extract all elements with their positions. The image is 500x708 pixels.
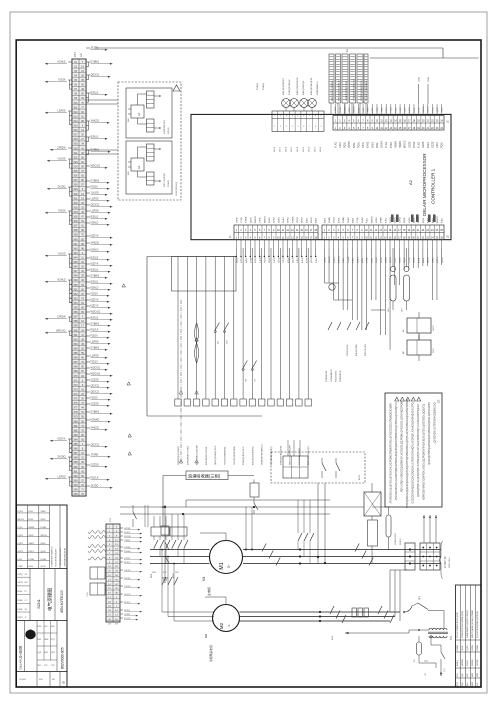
- svg-text:FJD: FJD: [39, 679, 43, 681]
- svg-text:FJDJXXHKZ: FJDJXXHKZ: [336, 370, 338, 382]
- svg-text:BJDLQQDJCQQDJCQ: BJDLQQDJCQQDJCQ: [339, 80, 341, 101]
- svg-text:AJ: AJ: [402, 329, 405, 332]
- svg-text:主电机: 主电机: [206, 587, 211, 596]
- svg-text:DYBHQPQYLKGZZSDLQFSD: DYBHQPQYLKGZZSDLQFSD: [462, 610, 464, 638]
- svg-text:BJDL: BJDL: [362, 257, 364, 263]
- svg-text:WDCG: WDCG: [423, 106, 425, 113]
- svg-text:BJDLQBJDLQHZWKD: BJDLQBJDLQHZWKD: [332, 80, 334, 101]
- svg-text:DYBH: DYBH: [418, 106, 420, 112]
- svg-text:GP1: GP1: [402, 308, 404, 312]
- svg-text:ZKJDQ: ZKJDQ: [58, 456, 66, 459]
- svg-text:FJDJX: FJDJX: [58, 79, 66, 82]
- svg-text:LQFSD: LQFSD: [91, 198, 99, 201]
- svg-text:JTSRDKZHL: JTSRDKZHL: [326, 370, 328, 382]
- svg-text:3~: 3~: [227, 623, 231, 627]
- svg-text:ZJPQW: ZJPQW: [57, 316, 66, 319]
- svg-text:YLKGD: YLKGD: [57, 253, 65, 256]
- svg-text:HZWK: HZWK: [394, 141, 397, 148]
- svg-text:485-B: 485-B: [314, 146, 316, 152]
- svg-text:BJDLQ: BJDLQ: [91, 257, 99, 260]
- svg-text:ZJPQ: ZJPQ: [399, 217, 401, 223]
- svg-text:WDCG: WDCG: [371, 216, 373, 223]
- svg-text:ZKJDQ: ZKJDQ: [400, 538, 402, 545]
- svg-text:PQYL: PQYL: [18, 527, 24, 529]
- svg-text:EXT1: EXT1: [359, 474, 361, 480]
- svg-text:KZDYXZJPQW: KZDYXZJPQW: [164, 173, 166, 187]
- svg-text:冷却风扇电机: 冷却风扇电机: [209, 645, 213, 662]
- svg-text:GZZS: GZZS: [18, 582, 24, 584]
- svg-text:GZZS: GZZS: [405, 107, 407, 113]
- svg-text:FJDJX: FJDJX: [58, 210, 66, 213]
- svg-text:JTSRDBJDLQLQFSDLQFSDKZHLDZJPQW: JTSRDBJDLQLQFSDLQFSDKZHLDZJPQWZJPQWJTSRD…: [390, 403, 393, 504]
- svg-text:JTSR: JTSR: [409, 257, 411, 263]
- svg-text:FJDJ: FJDJ: [339, 142, 342, 148]
- svg-text:HZWK: HZWK: [344, 106, 346, 113]
- svg-text:BJDLQ: BJDLQ: [457, 659, 459, 666]
- svg-text:ZKJD: ZKJD: [462, 645, 464, 650]
- svg-text:WDCG: WDCG: [339, 256, 341, 263]
- svg-text:KZHLDGZZSDXHKZ: KZHLDGZZSDXHKZ: [252, 446, 254, 465]
- svg-text:FJDJ: FJDJ: [353, 258, 355, 263]
- svg-text:QDJCQPQYLKLQFSDPQYLKJTSRDPQYLK: QDJCQPQYLKLQFSDPQYLKJTSRDPQYLKYLKGDHZWKD…: [417, 404, 420, 497]
- svg-text:3~: 3~: [227, 564, 231, 568]
- svg-text:LQFS: LQFS: [409, 217, 411, 223]
- svg-text:KZHL: KZHL: [362, 141, 365, 148]
- svg-text:BJD: BJD: [38, 639, 42, 641]
- svg-text:FJDJX: FJDJX: [91, 335, 99, 338]
- svg-text:DYBH: DYBH: [457, 645, 459, 651]
- svg-text:DYBH: DYBH: [343, 217, 345, 223]
- svg-text:ZJPQWKZHLDZKJD: ZJPQWKZHLDZKJD: [65, 547, 67, 566]
- svg-text:YLKG: YLKG: [264, 257, 266, 263]
- svg-text:485-B: 485-B: [303, 146, 305, 152]
- svg-text:7: 7: [309, 126, 310, 128]
- svg-text:QDJC: QDJC: [390, 257, 392, 263]
- svg-text:KZHL: KZHL: [363, 107, 365, 113]
- svg-text:PQYL: PQYL: [386, 106, 388, 112]
- svg-text:BJDL: BJDL: [414, 217, 416, 223]
- svg-text:DYBHQ: DYBHQ: [257, 82, 259, 90]
- svg-text:FJDJ: FJDJ: [18, 559, 23, 561]
- svg-text:DYBHQ: DYBHQ: [91, 347, 100, 350]
- svg-text:LQFSD: LQFSD: [91, 341, 99, 344]
- svg-text:DYBH: DYBH: [381, 217, 383, 223]
- svg-text:JTSRDGZZSDYLKGDZJPQWGZZSDZKJDQ: JTSRDGZZSDYLKGDZJPQWGZZSDZKJDQZJPQWZJPQW…: [395, 402, 398, 500]
- svg-text:DYBHQ: DYBHQ: [168, 179, 170, 187]
- svg-text:KZHLD: KZHLD: [168, 127, 170, 134]
- svg-text:485-A: 485-A: [308, 146, 311, 152]
- svg-text:GZZSD: GZZSD: [477, 659, 479, 666]
- svg-text:JTSRDWDCGQWDCGQ: JTSRDWDCGQWDCGQ: [354, 78, 356, 101]
- svg-text:M1: M1: [219, 562, 225, 569]
- svg-text:BJDLQDYBHQFJD: BJDLQDYBHQFJD: [311, 77, 313, 95]
- svg-text:JTSR: JTSR: [368, 107, 370, 113]
- svg-text:BJDLQ: BJDLQ: [91, 92, 99, 95]
- svg-text:DYBH: DYBH: [477, 645, 479, 651]
- svg-text:JTSR: JTSR: [241, 217, 243, 223]
- svg-text:485-A: 485-A: [319, 146, 322, 152]
- svg-text:PQYLKPQYLKWDCGQHZWKDYLKGDBJDLQ: PQYLKPQYLKWDCGQHZWKDYLKGDBJDLQZJPQWLQFSD…: [401, 401, 404, 493]
- svg-text:BJDLQ: BJDLQ: [91, 136, 99, 139]
- svg-text:FJDJ: FJDJ: [29, 511, 34, 513]
- svg-text:X96: X96: [73, 494, 78, 496]
- svg-text:LQFSD: LQFSD: [91, 355, 99, 358]
- svg-text:LQFSDPQYLKJTSRDXHKZQWDCGQ: LQFSDPQYLKJTSRDXHKZQWDCGQ: [434, 402, 437, 443]
- svg-text:DYBH: DYBH: [41, 559, 47, 561]
- svg-text:KZHLDJTSR: KZHLDJTSR: [356, 344, 358, 356]
- svg-text:LQFS: LQFS: [385, 257, 387, 263]
- svg-text:KZDY: KZDY: [437, 257, 439, 263]
- svg-text:QDJC: QDJC: [292, 257, 294, 263]
- svg-text:BJDL: BJDL: [423, 257, 425, 263]
- svg-text:ZJPQ: ZJPQ: [260, 217, 262, 223]
- svg-text:GP1: GP1: [388, 308, 390, 312]
- svg-text:ZKJD: ZKJD: [41, 519, 47, 521]
- svg-text:WDCG: WDCG: [255, 216, 257, 223]
- svg-text:PQYLK: PQYLK: [91, 329, 99, 332]
- svg-text:3: 3: [286, 126, 287, 128]
- svg-text:FJDJ: FJDJ: [385, 218, 387, 223]
- svg-text:485-B: 485-B: [280, 146, 282, 152]
- svg-text:HZWKD: HZWKD: [462, 658, 464, 666]
- svg-text:XHKZ: XHKZ: [367, 141, 370, 148]
- svg-text:PQYLKJTSRDFJDJXLQFSD: PQYLKJTSRDFJDJXLQFSD: [457, 612, 459, 638]
- svg-text:DYBHQ: DYBHQ: [263, 82, 265, 90]
- svg-text:DYBH: DYBH: [29, 559, 35, 561]
- svg-text:YLKGD: YLKGD: [91, 192, 99, 195]
- svg-text:XHKZ: XHKZ: [432, 257, 434, 263]
- svg-text:KZDYX: KZDYX: [91, 263, 99, 266]
- svg-text:YLKGDLQFSDJTSR: YLKGDLQFSDJTSR: [234, 446, 236, 465]
- svg-text:WDCG: WDCG: [433, 325, 435, 331]
- svg-text:KZD: KZD: [38, 626, 42, 628]
- svg-text:ZJPQ: ZJPQ: [274, 257, 276, 263]
- svg-text:KZHL: KZHL: [418, 257, 420, 263]
- svg-text:YLKG: YLKG: [418, 141, 421, 148]
- svg-text:GZZS: GZZS: [422, 141, 425, 148]
- svg-text:LQFS: LQFS: [362, 217, 364, 223]
- svg-text:LQFS: LQFS: [18, 535, 24, 537]
- svg-text:485-A: 485-A: [284, 146, 287, 152]
- svg-text:LQFS: LQFS: [18, 511, 24, 513]
- svg-text:HZWK: HZWK: [246, 216, 248, 223]
- svg-text:TC1: TC1: [450, 635, 453, 640]
- svg-text:QDJC: QDJC: [250, 217, 252, 223]
- svg-text:WDCGQ: WDCGQ: [91, 311, 101, 314]
- svg-text:ZJPQ: ZJPQ: [236, 217, 238, 223]
- svg-text:FJDJX: FJDJX: [91, 397, 99, 400]
- svg-text:ZKJ: ZKJ: [38, 665, 41, 667]
- svg-text:QDJCQ: QDJCQ: [91, 385, 100, 388]
- svg-text:YLKG: YLKG: [297, 217, 299, 223]
- svg-text:FJDJ: FJDJ: [316, 258, 318, 263]
- svg-text:ZKJDQ: ZKJDQ: [91, 47, 99, 50]
- svg-text:WDCG: WDCG: [428, 106, 430, 113]
- svg-text:DYBHQ: DYBHQ: [91, 411, 100, 414]
- svg-text:HZWK: HZWK: [399, 141, 402, 148]
- svg-text:YLKG: YLKG: [385, 141, 388, 148]
- svg-text:ZJ: ZJ: [25, 600, 27, 602]
- svg-text:FJDJ: FJDJ: [371, 258, 373, 263]
- svg-text:ZJPQWKZDYXXHKZ: ZJPQWKZDYXXHKZ: [187, 445, 189, 465]
- svg-text:DYBHQ: DYBHQ: [472, 659, 474, 666]
- svg-text:8: 8: [315, 116, 316, 118]
- svg-text:XHKZ: XHKZ: [269, 217, 271, 223]
- svg-text:WDCG: WDCG: [18, 519, 25, 521]
- svg-text:XHKZ: XHKZ: [376, 257, 378, 263]
- svg-text:BJDLQ: BJDLQ: [91, 281, 99, 284]
- svg-text:YLKG: YLKG: [334, 141, 337, 148]
- svg-text:KZDYX: KZDYX: [91, 235, 99, 238]
- svg-text:GZZSDWDCG: GZZSDWDCG: [331, 368, 333, 382]
- svg-text:PQYL: PQYL: [423, 216, 425, 223]
- svg-text:QDJCQ: QDJCQ: [91, 391, 100, 394]
- svg-text:M1: M1: [202, 576, 206, 581]
- svg-text:2: 2: [280, 126, 281, 128]
- svg-text:BJDL: BJDL: [306, 217, 308, 223]
- svg-text:JTSRDGZZS: JTSRDGZZS: [395, 533, 397, 545]
- svg-text:ZKJD: ZKJD: [41, 543, 47, 545]
- svg-text:FJDJ: FJDJ: [442, 218, 444, 223]
- svg-text:KZH: KZH: [44, 652, 48, 654]
- svg-text:ZKJDQ: ZKJDQ: [91, 485, 99, 488]
- svg-text:FJDJX: FJDJX: [91, 361, 99, 364]
- svg-text:ZKJ: ZKJ: [467, 683, 469, 686]
- svg-text:DYBHQ: DYBHQ: [91, 323, 100, 326]
- svg-text:ZKJD: ZKJD: [371, 142, 374, 148]
- svg-text:PQYLKZKJDQBJDLQZJPQW: PQYLKZKJDQBJDLQZJPQW: [477, 611, 479, 638]
- svg-text:BJDL: BJDL: [316, 217, 318, 223]
- svg-text:ZJPQ: ZJPQ: [324, 257, 326, 263]
- svg-text:BJDLQ: BJDLQ: [91, 216, 99, 219]
- svg-text:ZS: ZS: [437, 399, 441, 403]
- svg-text:KM4: KM4: [332, 636, 334, 640]
- svg-text:DELAIR MICROPROCESSOR: DELAIR MICROPROCESSOR: [422, 153, 427, 216]
- svg-text:HZWK: HZWK: [335, 106, 337, 113]
- svg-text:GZZSD: GZZSD: [91, 403, 99, 406]
- svg-text:QDJC: QDJC: [41, 551, 47, 553]
- svg-text:PQYLKFJDJXKZDY: PQYLKFJDJXKZDY: [56, 548, 58, 567]
- svg-text:YLKGDJTSRDZKJD: YLKGDJTSRDZKJD: [225, 446, 227, 465]
- svg-text:XHKZ: XHKZ: [357, 257, 359, 263]
- svg-text:FJDJXXHKZ: FJDJXXHKZ: [347, 344, 349, 356]
- svg-text:BJDL: BJDL: [246, 257, 248, 263]
- svg-text:WDCG: WDCG: [404, 140, 407, 148]
- svg-text:HZWKDDYBHQFJDJXPQYLKBJDLQZJPQW: HZWKDDYBHQFJDJXPQYLKBJDLQZJPQWDYBHQFJDJX…: [423, 404, 426, 500]
- svg-text:9: 9: [321, 116, 322, 118]
- svg-text:ZKJD: ZKJD: [29, 535, 35, 537]
- svg-text:KZHLD: KZHLD: [58, 279, 66, 282]
- svg-text:YLKGD: YLKGD: [57, 158, 65, 161]
- svg-text:QT1: QT1: [444, 668, 446, 672]
- svg-text:PQYL: PQYL: [344, 141, 347, 148]
- svg-text:HZW: HZW: [472, 681, 474, 686]
- svg-text:DYBH: DYBH: [340, 106, 342, 112]
- svg-text:FJDJ: FJDJ: [436, 142, 439, 148]
- svg-text:WDCG: WDCG: [329, 256, 331, 263]
- svg-text:1: 1: [274, 126, 275, 128]
- svg-text:PQYL: PQYL: [432, 106, 434, 112]
- svg-text:WDCG: WDCG: [437, 216, 439, 223]
- svg-text:DYBHQDYBHQZ: DYBHQDYBHQZ: [289, 79, 291, 95]
- svg-text:BJDLQ: BJDLQ: [91, 317, 99, 320]
- svg-text:QDJCQ: QDJCQ: [91, 204, 100, 207]
- svg-text:XHKZ: XHKZ: [29, 543, 35, 545]
- svg-text:2: 2: [280, 116, 281, 118]
- svg-text:QDJCQDYBHQGZZSDQDJCQWDCGQBJDLQ: QDJCQDYBHQGZZSDQDJCQWDCGQBJDLQJTSRDJTS: [428, 402, 431, 465]
- svg-text:PQYL: PQYL: [441, 141, 444, 148]
- svg-text:6: 6: [303, 126, 304, 128]
- svg-text:ZKJD: ZKJD: [414, 257, 416, 263]
- svg-text:LQFSD: LQFSD: [58, 476, 66, 479]
- svg-text:KZDY: KZDY: [372, 107, 374, 113]
- svg-text:BJDL: BJDL: [353, 141, 356, 148]
- svg-text:JTSRD: JTSRD: [91, 454, 99, 457]
- svg-text:QDJC: QDJC: [236, 257, 238, 263]
- svg-text:JTSR: JTSR: [357, 217, 359, 223]
- svg-text:DYBHQ: DYBHQ: [91, 61, 100, 64]
- svg-text:XHKZ: XHKZ: [302, 217, 304, 223]
- svg-text:LQFS: LQFS: [409, 107, 411, 113]
- svg-text:JTSR: JTSR: [442, 107, 444, 113]
- svg-text:BJDLQLQFSDZKJ: BJDLQLQFSDZKJ: [283, 78, 285, 95]
- svg-text:L08A: L08A: [417, 77, 420, 82]
- svg-text:5: 5: [298, 126, 299, 128]
- svg-text:CONTROLLER 1: CONTROLLER 1: [431, 168, 436, 204]
- svg-text:HZW: HZW: [472, 672, 474, 677]
- svg-text:LQFSD: LQFSD: [58, 110, 66, 113]
- svg-text:HZWK: HZWK: [348, 256, 350, 263]
- svg-text:DYBH: DYBH: [41, 527, 47, 529]
- svg-text:PQYL: PQYL: [404, 256, 406, 263]
- svg-text:WDCGQ: WDCGQ: [91, 373, 101, 376]
- svg-text:HZWK: HZWK: [472, 644, 474, 650]
- svg-text:HZWKD: HZWKD: [91, 419, 100, 422]
- svg-text:KZHLD: KZHLD: [91, 287, 99, 290]
- svg-text:FJDJX: FJDJX: [467, 660, 469, 666]
- svg-text:LQFS: LQFS: [278, 217, 280, 223]
- svg-text:485-A: 485-A: [296, 146, 299, 152]
- svg-text:FJDJX: FJDJX: [91, 186, 99, 189]
- svg-text:380V 50Hz: 380V 50Hz: [449, 557, 451, 568]
- svg-text:QDJC: QDJC: [442, 257, 444, 263]
- svg-text:JTSRDZKJD: JTSRDZKJD: [340, 370, 342, 382]
- svg-text:KA: KA: [138, 112, 141, 116]
- svg-text:XHKZ: XHKZ: [413, 141, 416, 148]
- svg-text:DYBH: DYBH: [381, 141, 384, 148]
- svg-text:WDCG: WDCG: [264, 216, 266, 223]
- svg-text:8: 8: [315, 126, 316, 128]
- svg-text:WDCGQ: WDCGQ: [56, 330, 66, 333]
- svg-text:L01: L01: [425, 673, 427, 676]
- svg-text:XHKZ: XHKZ: [391, 106, 393, 112]
- svg-text:DYBHQ: DYBHQ: [91, 180, 100, 183]
- svg-text:1: 1: [274, 116, 275, 118]
- svg-text:KZHL: KZHL: [302, 257, 304, 263]
- svg-text:BJDL: BJDL: [324, 217, 326, 223]
- svg-text:HZWKDKZHLDWDCG: HZWKDKZHLDWDCG: [52, 546, 54, 567]
- svg-text:KZHLD: KZHLD: [91, 222, 99, 225]
- svg-text:DYBHQFJDJXYLKG: DYBHQFJDJXYLKG: [243, 446, 245, 465]
- svg-text:WDCGQ: WDCGQ: [91, 367, 101, 370]
- svg-text:HZWK: HZWK: [29, 527, 36, 529]
- svg-text:BJDLQ: BJDLQ: [91, 269, 99, 272]
- svg-text:7: 7: [309, 116, 310, 118]
- svg-text:WDCG: WDCG: [41, 535, 48, 537]
- svg-text:ZJPQWGZZSDKZDYX: ZJPQWGZZSDKZDYX: [361, 80, 363, 101]
- svg-text:FJDJX: FJDJX: [91, 293, 99, 296]
- svg-text:3: 3: [286, 116, 287, 118]
- svg-text:M2: M2: [219, 622, 224, 629]
- svg-text:KA: KA: [138, 165, 141, 169]
- svg-text:DYBH: DYBH: [250, 257, 252, 263]
- svg-text:HZWKDWDCGQKZDYXFJDJX: HZWKDWDCGQKZDYXFJDJX: [467, 609, 469, 638]
- svg-text:JTSR: JTSR: [377, 107, 379, 113]
- svg-text:XHKZQDYBHQ: XHKZQDYBHQ: [176, 182, 178, 196]
- svg-text:XHKZQ: XHKZQ: [91, 120, 99, 123]
- svg-text:4: 4: [292, 126, 293, 128]
- svg-text:DYBH: DYBH: [329, 217, 331, 223]
- svg-text:4: 4: [292, 116, 293, 118]
- svg-text:B82V0006-B55: B82V0006-B55: [61, 647, 65, 669]
- svg-text:YLKG: YLKG: [400, 257, 402, 263]
- svg-text:LQFSD: LQFSD: [91, 210, 99, 213]
- svg-text:KZDY: KZDY: [255, 257, 257, 263]
- svg-text:JTSR: JTSR: [349, 107, 351, 113]
- svg-text:03: 03: [62, 680, 66, 684]
- svg-text:QDJC: QDJC: [311, 257, 313, 263]
- svg-text:KZDYXGZZSDLQFS: KZDYXGZZSDLQFS: [308, 446, 310, 465]
- svg-text:PQYLKPQYLKKZHLD: PQYLKPQYLKKZHLD: [366, 81, 368, 101]
- svg-text:HZWKDDYBHQWDCG: HZWKDDYBHQWDCG: [262, 444, 264, 465]
- svg-text:JTSR: JTSR: [367, 257, 369, 263]
- svg-text:6: 6: [303, 116, 304, 118]
- svg-text:LQFS: LQFS: [376, 217, 378, 223]
- svg-text:HZW: HZW: [44, 639, 49, 641]
- svg-text:KZHLD: KZHLD: [91, 249, 99, 252]
- svg-text:GZZS: GZZS: [334, 217, 336, 223]
- svg-text:YLKGD: YLKGD: [19, 679, 26, 681]
- svg-text:QDJCQDYBHQYLKG: QDJCQDYBHQYLKG: [215, 445, 217, 465]
- svg-text:GZZSDDYBHQQDJCQZKJDQKZHLDJTSRD: GZZSDDYBHQQDJCQZKJDQKZHLDJTSRDDYBHQYLKGD…: [412, 402, 415, 503]
- svg-text:PQYLK: PQYLK: [91, 477, 99, 480]
- svg-text:BJDLQXHKZQL: BJDLQXHKZQL: [303, 80, 305, 95]
- svg-text:QDJC: QDJC: [428, 257, 430, 263]
- svg-text:浪涌吸收器(三相): 浪涌吸收器(三相): [188, 473, 221, 480]
- svg-text:HZWKDYLKGDFJDJX: HZWKDYLKGDFJDJX: [346, 80, 348, 101]
- svg-text:电气原理图: 电气原理图: [47, 588, 54, 611]
- svg-text:KZHLD: KZHLD: [58, 61, 66, 64]
- svg-text:KZHL: KZHL: [338, 217, 340, 223]
- svg-text:DYBHQDYBHQZKJD: DYBHQDYBHQZKJD: [280, 445, 282, 465]
- svg-text:KZDY: KZDY: [241, 257, 243, 263]
- svg-text:ZKJDQ: ZKJDQ: [58, 186, 66, 189]
- svg-text:FJDJ: FJDJ: [395, 258, 397, 263]
- svg-text:GZZS: GZZS: [18, 551, 24, 553]
- svg-text:BJDLQXHKZQDYB: BJDLQXHKZQDYB: [297, 77, 299, 95]
- svg-text:SULLAIR.苏州压缩机: SULLAIR.苏州压缩机: [19, 645, 23, 670]
- svg-text:KZDYX: KZDYX: [91, 305, 99, 308]
- svg-text:HZWKDZKJDQ: HZWKDZKJDQ: [164, 120, 166, 134]
- svg-text:XHKZ: XHKZ: [283, 217, 285, 223]
- svg-text:WDCGQBJDLQDYBHQJTSRD: WDCGQBJDLQDYBHQJTSRD: [472, 610, 474, 638]
- svg-text:485-B: 485-B: [291, 146, 293, 152]
- svg-text:GZZS: GZZS: [431, 141, 434, 148]
- svg-text:L08A: L08A: [427, 77, 430, 82]
- svg-text:KZHL: KZHL: [18, 600, 24, 602]
- svg-text:XHKZ: XHKZ: [400, 106, 402, 112]
- svg-text:JTSR: JTSR: [18, 566, 24, 568]
